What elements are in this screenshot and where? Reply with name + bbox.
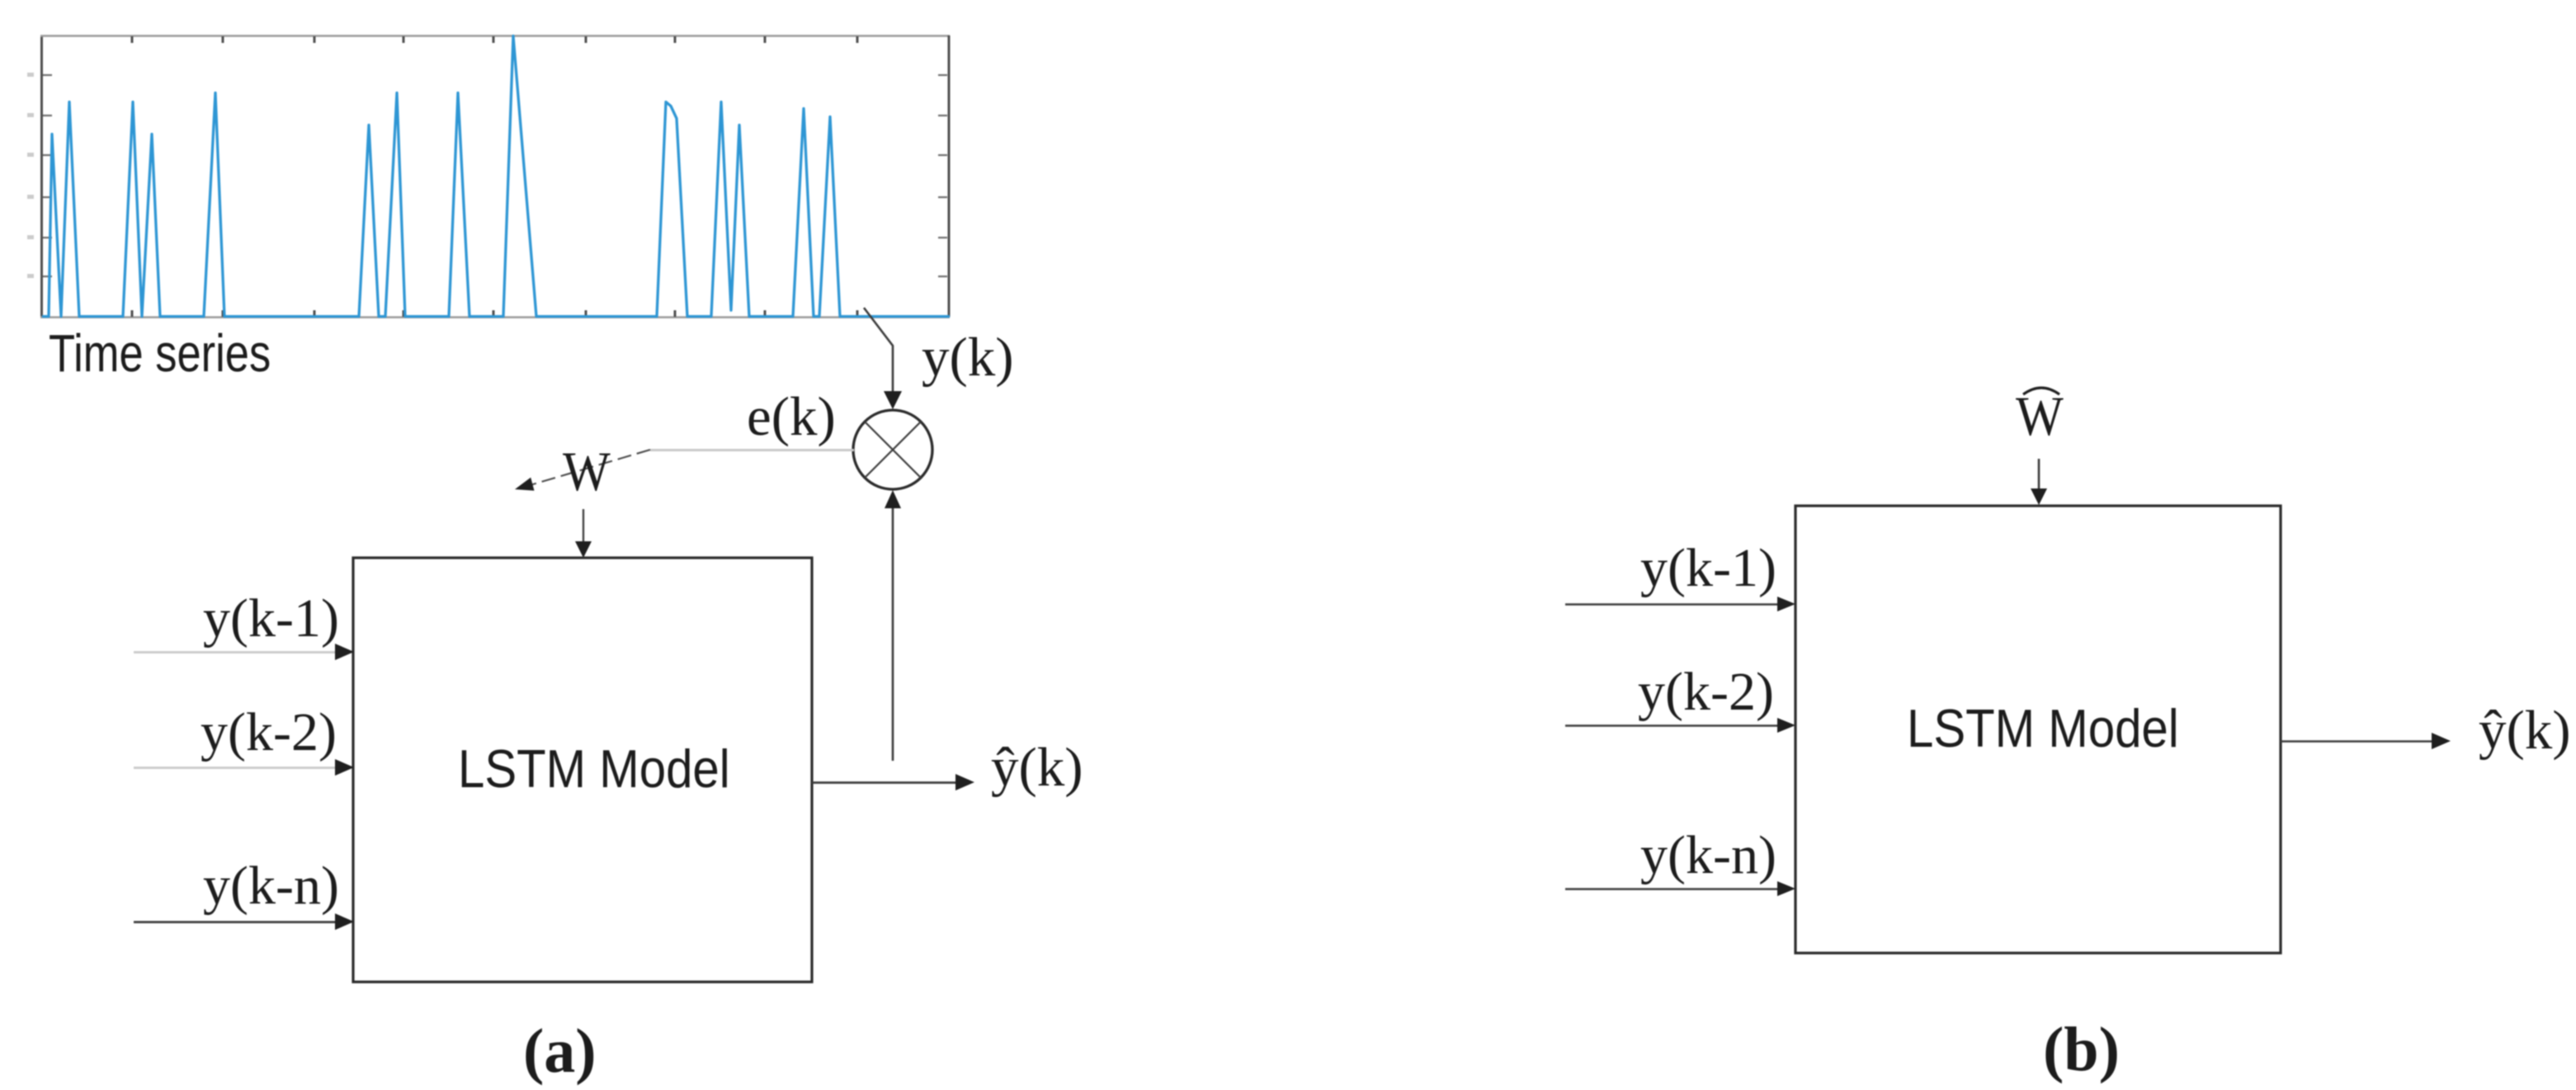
time series plot frame — [40, 35, 950, 318]
svg-text:(b): (b) — [2043, 1015, 2120, 1084]
dashed wire arrowhead — [515, 478, 535, 491]
svg-text:y(k): y(k) — [922, 327, 1014, 388]
svg-text:(a): (a) — [523, 1017, 597, 1086]
arrow What to box b — [2038, 459, 2041, 490]
arrow W to box a — [583, 509, 584, 544]
left axis ticks — [43, 75, 52, 276]
left tick labels (illegible) — [27, 73, 34, 278]
svg-text:Time series: Time series — [49, 324, 271, 383]
right axis ticks — [938, 75, 947, 276]
dashed wire to W — [527, 450, 650, 486]
LSTM box b — [1795, 506, 2281, 953]
wire y(k-2) a — [134, 767, 338, 769]
svg-text:ŷ(k): ŷ(k) — [991, 737, 1083, 798]
svg-text:e(k): e(k) — [747, 386, 836, 447]
svg-text:y(k-n): y(k-n) — [203, 856, 339, 916]
leader wire from series to y(k) arrow — [864, 308, 893, 394]
LSTM box a — [353, 558, 812, 982]
svg-text:y(k-1): y(k-1) — [203, 588, 339, 649]
wire e(k) gray — [650, 449, 854, 451]
wire y(k-1) b — [1565, 603, 1781, 606]
top axis ticks — [132, 36, 857, 43]
svg-text:ŷ(k): ŷ(k) — [2479, 700, 2571, 761]
svg-text:LSTM Model: LSTM Model — [1907, 699, 2179, 759]
svg-text:LSTM Model: LSTM Model — [458, 739, 730, 800]
multiplier cross — [865, 422, 921, 478]
svg-text:W: W — [563, 440, 611, 503]
output wire a — [812, 781, 957, 784]
hat over W — [2023, 388, 2059, 394]
y(k) arrowhead into multiplier — [884, 391, 902, 409]
multiplier circle — [853, 410, 932, 489]
wire y(k-1) a — [134, 651, 338, 654]
svg-text:y(k-2): y(k-2) — [201, 702, 337, 762]
wire multiplier to output a — [892, 507, 894, 761]
time series blue curve — [42, 36, 950, 317]
wire y(k-n) b — [1565, 888, 1781, 890]
svg-text:y(k-1): y(k-1) — [1640, 538, 1776, 598]
wire y(k-2) b — [1565, 724, 1781, 727]
wire y(k-n) a — [134, 921, 338, 923]
svg-text:y(k-n): y(k-n) — [1640, 825, 1776, 885]
svg-text:y(k-2): y(k-2) — [1638, 662, 1774, 722]
output wire b — [2281, 740, 2432, 743]
bottom axis ticks — [132, 310, 857, 317]
